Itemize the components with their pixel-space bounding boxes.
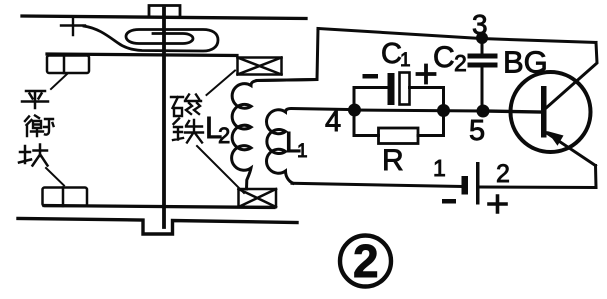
base bar [541,86,547,138]
svg-text:2: 2 [454,50,467,76]
leader 磁铁 to bottom magnet [197,146,244,193]
label 块 [19,145,48,166]
svg-text:C: C [381,38,402,70]
label 衡 [25,116,54,137]
node 5 dot [477,105,490,118]
spiral spring [84,26,218,51]
label 铁 [173,119,203,143]
node 4 dot [348,104,361,117]
coil L2 [232,80,317,190]
magnet box top [238,58,282,75]
wire battery to emitter riser [480,166,597,188]
svg-text:2: 2 [496,160,510,188]
svg-text:1: 1 [297,141,308,162]
leader to bottom block [46,168,64,186]
shaft [162,9,166,228]
top beam line [47,54,237,56]
svg-text:1: 1 [400,50,411,71]
ceiling clamp bump [149,6,180,18]
capacitor C2 [481,38,484,111]
base wire [483,111,541,112]
base ground line with slot [18,219,297,235]
wire L1 bottom to battery [292,183,462,186]
leader 磁铁 to top magnet [207,71,236,96]
battery minus plate [462,176,469,195]
magnet box bottom [239,189,277,207]
left riser to L2 [257,29,318,81]
figure number circle [340,236,391,287]
svg-text:2: 2 [353,235,379,287]
transistor BG circle [511,72,591,152]
ceiling support line [22,16,306,19]
label 平 [22,91,48,108]
svg-text:R: R [382,144,404,177]
svg-text:1: 1 [433,155,446,181]
capacitor C1 electrolytic [388,73,395,105]
node 3 dot [476,32,488,44]
C1 minus sign [363,74,379,79]
pivot cross [61,18,85,35]
resistor R [379,128,419,144]
label 磁 [171,95,201,117]
svg-text:4: 4 [325,106,341,138]
leader to 平衡块 (top) [51,74,67,89]
collector lead [546,43,598,109]
C1 plus sign [418,66,435,83]
emitter lead [545,132,596,166]
svg-text:2: 2 [218,123,230,148]
svg-text:3: 3 [472,9,488,40]
coil L1 [267,109,348,184]
parallel loop wires [354,88,444,136]
wire node4 to node5 [354,110,483,111]
circuit top wire [318,29,596,43]
battery plus sign [489,196,506,212]
beam bottom line [44,206,274,208]
battery minus sign [442,199,456,204]
balance weight top block [47,56,89,74]
balance weight bottom block [43,188,88,207]
battery plus plate [476,162,480,205]
svg-text:C: C [433,41,455,74]
emitter arrow (PNP) [547,131,564,146]
svg-text:5: 5 [469,115,485,147]
loop node dot right [437,104,450,117]
